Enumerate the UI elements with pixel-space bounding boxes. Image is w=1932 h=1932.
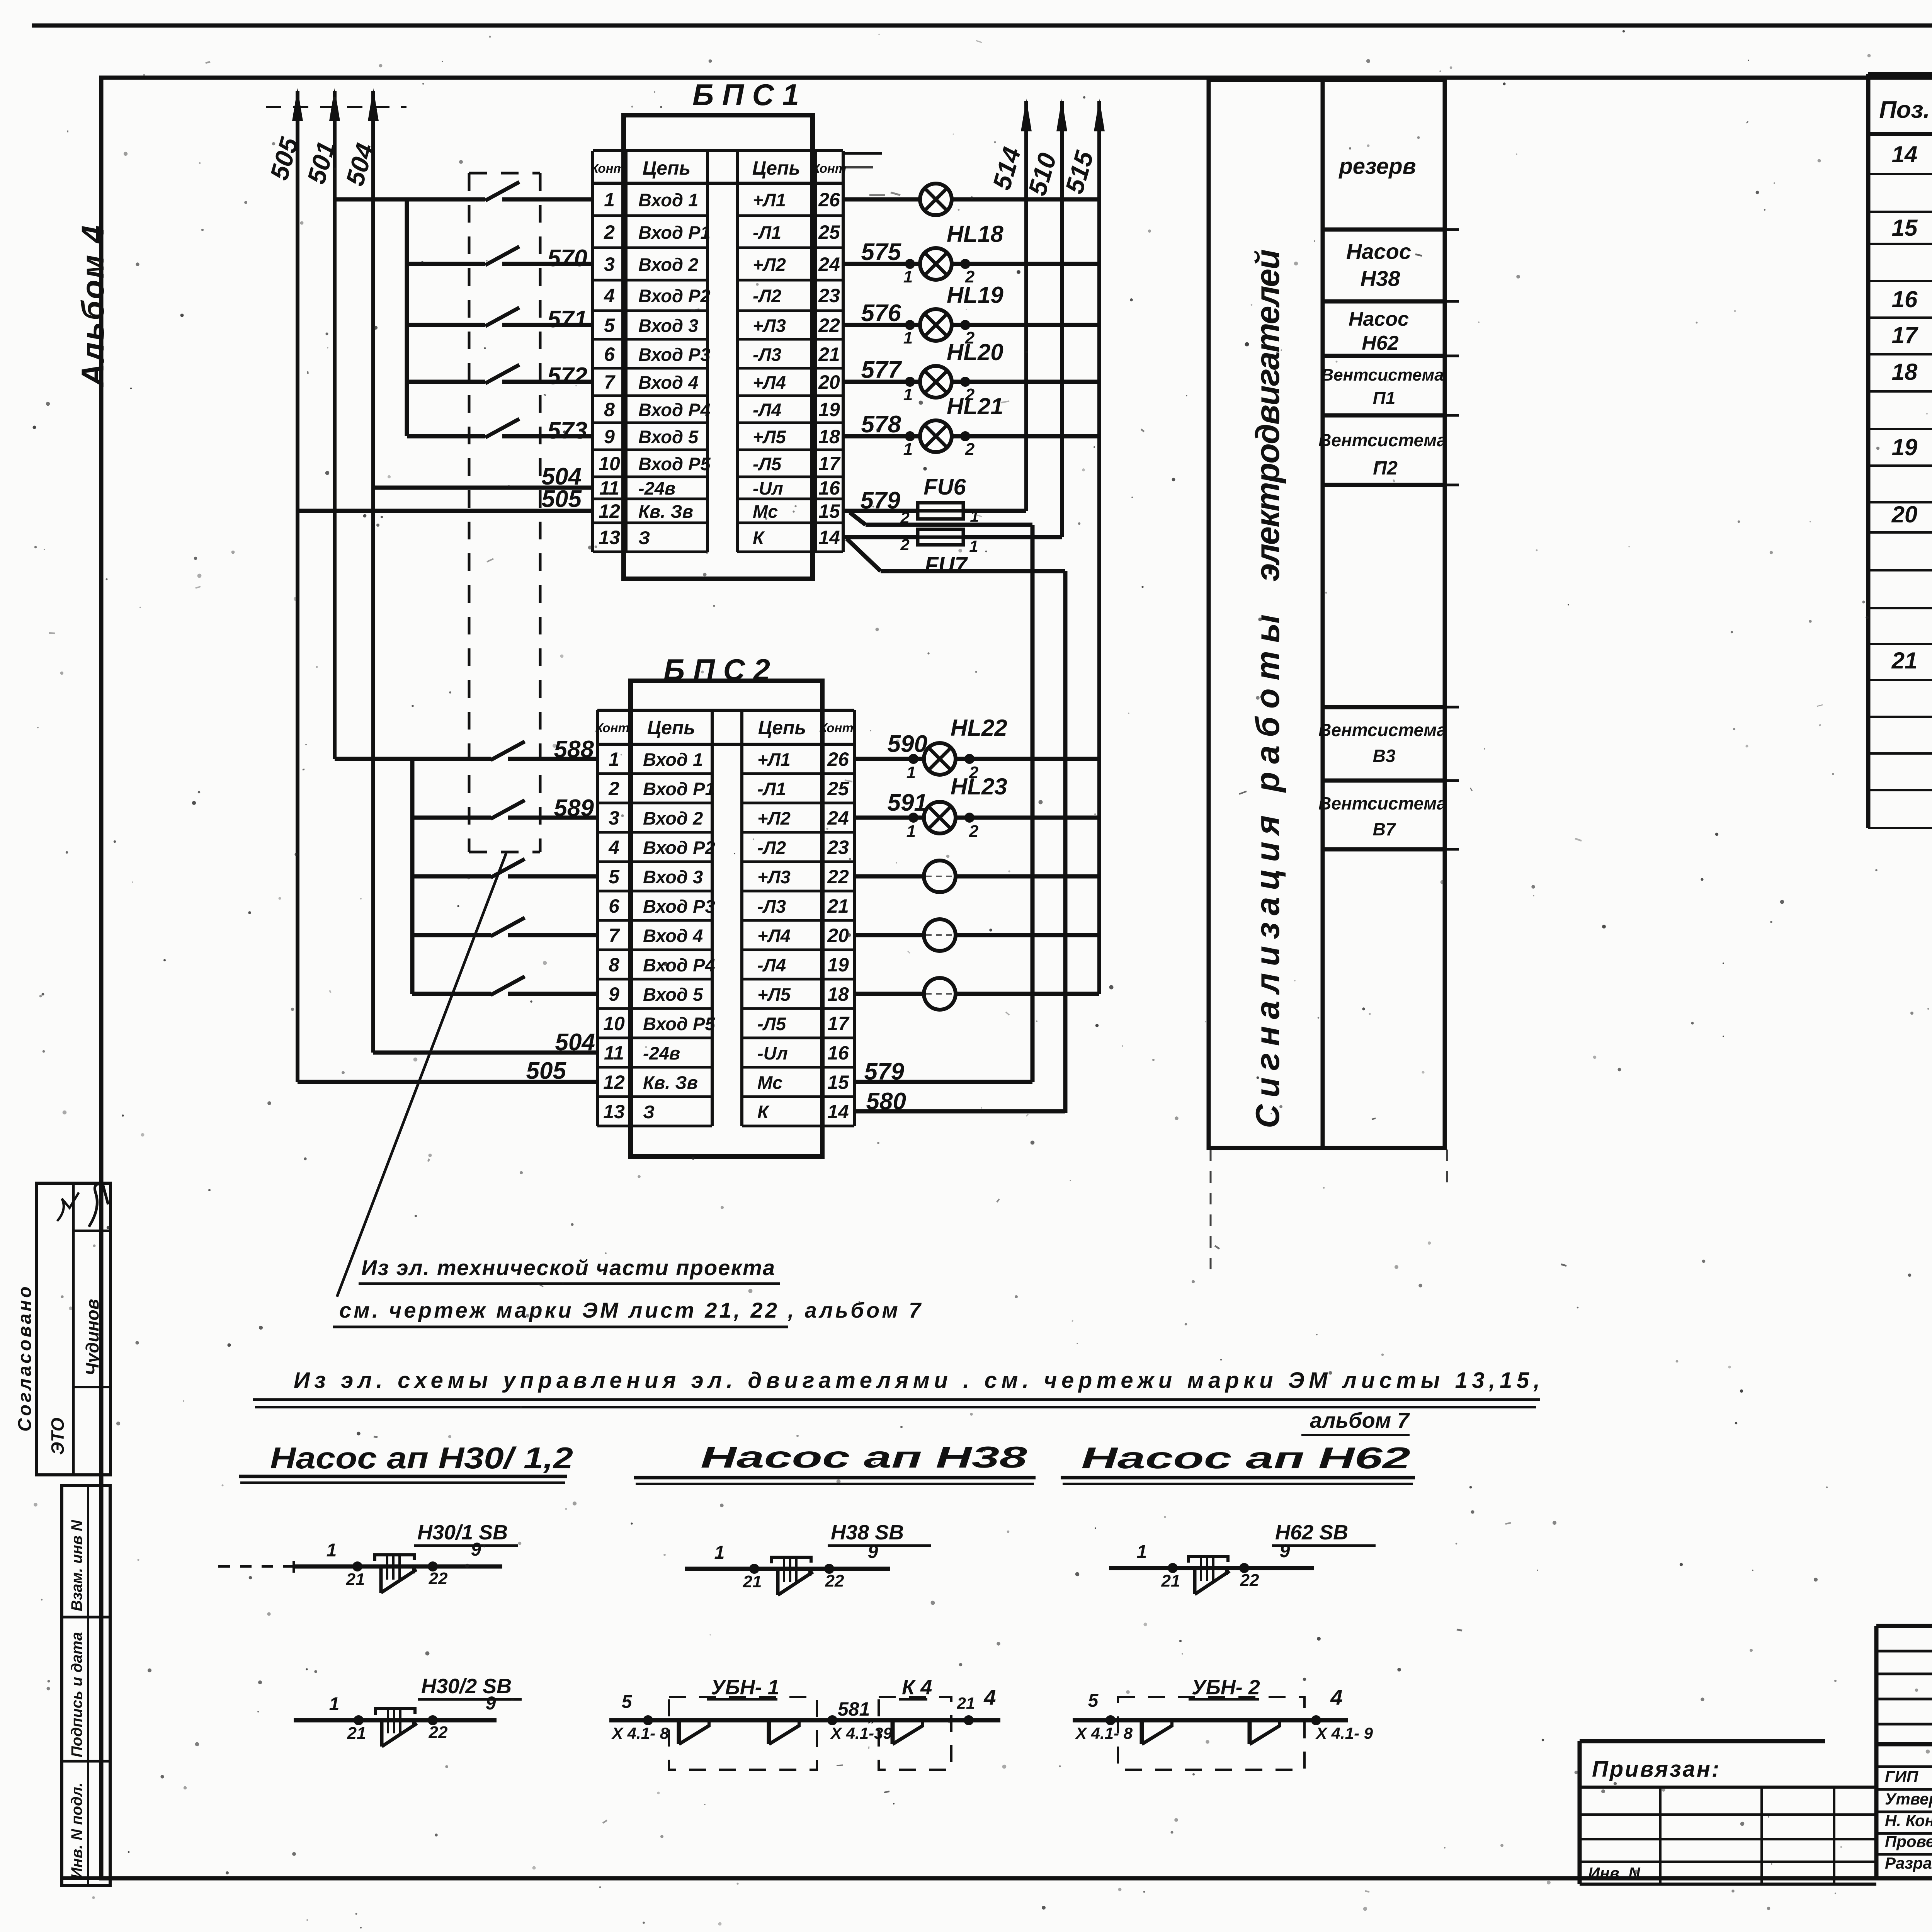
- pin 2 node: [960, 320, 970, 330]
- svg-text:+Л4: +Л4: [757, 925, 791, 946]
- svg-text:16: 16: [1892, 286, 1918, 312]
- svg-text:Н62: Н62: [1362, 332, 1398, 354]
- signal panel cell divider: [1323, 483, 1445, 487]
- wire 570 to BPS1 pin 3: [502, 262, 593, 266]
- svg-text:Вход 2: Вход 2: [638, 254, 698, 275]
- svg-text:12: 12: [603, 1071, 625, 1093]
- node 22: [824, 1564, 834, 1574]
- svg-text:8: 8: [604, 399, 615, 420]
- pushbutton actuator head: [1189, 1556, 1228, 1563]
- wire 579 from BPS2 pin 15: [854, 1080, 1032, 1084]
- svg-text:Разработ.: Разработ.: [1885, 1854, 1932, 1872]
- fuse FU6: [918, 503, 963, 519]
- wire BPS1 pin 24 lamp row: [843, 262, 920, 266]
- svg-text:22: 22: [827, 866, 849, 888]
- svg-text:Цепь: Цепь: [752, 157, 801, 179]
- svg-text:26: 26: [818, 189, 840, 211]
- svg-text:4: 4: [983, 1685, 996, 1709]
- svg-text:24: 24: [827, 807, 849, 829]
- node 21: [1168, 1563, 1178, 1573]
- svg-text:Вход 4: Вход 4: [643, 925, 703, 946]
- wire 505 to BPS2 pin 12: [298, 1080, 597, 1084]
- paper top edge line: [32, 24, 1932, 28]
- wire pump circuit Н38: [685, 1567, 890, 1571]
- dashed enclosure around limit switches: [469, 172, 540, 175]
- wire switch stub BPS2 row 5: [412, 874, 491, 879]
- svg-text:Насос: Насос: [1349, 308, 1409, 330]
- svg-text:Вход 5: Вход 5: [643, 984, 703, 1005]
- svg-text:591: 591: [888, 789, 927, 816]
- switch collector vertical BPS1: [405, 199, 409, 436]
- svg-text:-Л1: -Л1: [753, 222, 781, 243]
- cut marker dashes near bus arrows: [266, 106, 406, 108]
- svg-text:HL22: HL22: [951, 715, 1007, 741]
- bus 501 vertical wire with arrow: [333, 91, 337, 759]
- svg-text:Конт.: Конт.: [595, 721, 633, 735]
- svg-text:15: 15: [827, 1071, 849, 1093]
- svg-text:22: 22: [818, 315, 840, 336]
- wire switch stub row 3: [407, 262, 485, 266]
- wire 505 to BPS1 pin 12: [298, 509, 593, 513]
- wire 580 from BPS2 pin 14: [854, 1109, 1065, 1114]
- svg-text:14: 14: [818, 527, 840, 548]
- svg-text:12: 12: [599, 500, 620, 522]
- svg-text:Н38 SB: Н38 SB: [831, 1521, 904, 1544]
- wire BPS2 pin 18 lamp row: [854, 992, 924, 996]
- wire to BPS2 pin 3: [508, 816, 597, 820]
- svg-text:Вход Р4: Вход Р4: [643, 955, 715, 975]
- svg-text:19: 19: [827, 954, 849, 976]
- svg-text:X 4.1-39: X 4.1-39: [830, 1724, 892, 1742]
- svg-text:-Л5: -Л5: [753, 454, 782, 474]
- svg-text:Кв. Зв: Кв. Зв: [638, 501, 693, 522]
- fuse FU7: [918, 529, 963, 545]
- wire pump circuit Н30/1: [294, 1565, 502, 1569]
- connector BPS1 pin table grid: [591, 151, 594, 552]
- switch contact SB BPS2 row 5: [491, 859, 525, 878]
- svg-text:-Л2: -Л2: [753, 286, 781, 306]
- pin 1 node: [905, 377, 915, 387]
- svg-text:22: 22: [1240, 1571, 1259, 1590]
- signal panel cell divider: [1323, 354, 1445, 358]
- short stub from BPS1 header: [843, 152, 882, 155]
- circuit H30/1 SB: [218, 1565, 294, 1568]
- svg-text:Вход 1: Вход 1: [643, 749, 703, 770]
- svg-text:1: 1: [969, 537, 978, 555]
- svg-text:578: 578: [861, 411, 901, 438]
- wire BPS1 pin 22 lamp row: [843, 323, 920, 327]
- wire switch stub BPS2 row 7: [412, 933, 491, 937]
- svg-text:22: 22: [429, 1723, 448, 1742]
- svg-text:577: 577: [861, 357, 902, 383]
- svg-text:13: 13: [603, 1101, 625, 1122]
- node 581: [827, 1715, 837, 1725]
- wire 504 to BPS1 pin 11: [373, 486, 593, 490]
- svg-text:Н30/1 SB: Н30/1 SB: [417, 1521, 508, 1544]
- svg-text:+Л2: +Л2: [753, 254, 786, 275]
- signal panel cell divider: [1323, 413, 1445, 418]
- svg-text:Цепь: Цепь: [758, 717, 806, 738]
- node 21: [354, 1715, 364, 1725]
- svg-text:19: 19: [1892, 434, 1918, 460]
- svg-text:21: 21: [827, 895, 849, 917]
- svg-text:+Л1: +Л1: [757, 749, 791, 770]
- svg-text:Конт.: Конт.: [819, 721, 857, 735]
- svg-text:альбом 7: альбом 7: [1310, 1408, 1410, 1432]
- wire switch stub row 5: [407, 323, 485, 327]
- svg-text:7: 7: [609, 925, 620, 946]
- svg-text:571: 571: [548, 306, 587, 333]
- svg-text:Вход 3: Вход 3: [643, 867, 703, 887]
- switch contact SB BPS2 row 1: [491, 742, 525, 760]
- svg-text:9: 9: [868, 1542, 878, 1562]
- pin 2 node: [960, 431, 970, 441]
- pushbutton contact blade: [776, 1570, 780, 1595]
- switch contact SB row 9: [485, 419, 519, 437]
- svg-text:588: 588: [554, 736, 594, 763]
- circuit УБН-2 wire: [1073, 1718, 1348, 1723]
- svg-text:Проверил: Проверил: [1885, 1832, 1932, 1850]
- svg-text:З: З: [643, 1102, 655, 1122]
- svg-text:573: 573: [548, 417, 587, 444]
- wire to BPS2 pin 5: [508, 874, 597, 879]
- svg-text:504: 504: [555, 1029, 595, 1056]
- svg-text:К 4: К 4: [902, 1676, 932, 1699]
- svg-text:11: 11: [604, 1042, 624, 1064]
- signal panel cell divider: [1323, 705, 1445, 709]
- svg-text:Из эл. схемы управления: Из эл. схемы управления эл. двигателями …: [294, 1368, 1540, 1393]
- wire switch stub BPS2 row 9: [412, 992, 491, 996]
- wire 580 jog down to riser: [847, 539, 881, 571]
- svg-text:П1: П1: [1373, 388, 1396, 408]
- node X4.1-9: [1311, 1715, 1321, 1725]
- svg-text:ГИП: ГИП: [1885, 1767, 1918, 1786]
- svg-text:572: 572: [548, 363, 587, 389]
- svg-text:FU7: FU7: [925, 553, 968, 578]
- svg-text:23: 23: [827, 837, 849, 858]
- svg-text:X 4.1- 9: X 4.1- 9: [1315, 1724, 1373, 1742]
- svg-text:-Л1: -Л1: [757, 779, 786, 799]
- svg-text:6: 6: [604, 344, 615, 365]
- connector BPS2 pin table grid: [596, 710, 599, 1126]
- svg-text:Вход Р4: Вход Р4: [638, 400, 711, 420]
- svg-text:5: 5: [622, 1692, 633, 1712]
- svg-text:9: 9: [604, 426, 615, 447]
- title block revision grid: [1876, 1650, 1932, 1653]
- svg-text:8: 8: [609, 954, 619, 976]
- wire вход1 to BPS1 pin 1: [502, 197, 593, 202]
- svg-text:Насос ап Н30/ 1,2: Насос ап Н30/ 1,2: [270, 1441, 573, 1475]
- pushbutton contact blade: [1193, 1569, 1197, 1594]
- svg-text:19: 19: [818, 399, 840, 420]
- svg-text:+Л1: +Л1: [753, 190, 786, 210]
- svg-text:HL20: HL20: [947, 339, 1003, 365]
- svg-text:З: З: [638, 527, 650, 548]
- svg-text:FU6: FU6: [923, 474, 966, 500]
- svg-text:7: 7: [604, 371, 616, 393]
- wire 572 to BPS1 pin 7: [502, 380, 593, 384]
- svg-text:26: 26: [827, 748, 849, 770]
- node 22: [428, 1715, 438, 1725]
- svg-text:575: 575: [861, 239, 902, 265]
- svg-text:2: 2: [965, 440, 975, 459]
- svg-text:HL18: HL18: [947, 221, 1003, 247]
- title block outline: [1876, 1624, 1932, 1628]
- svg-text:Вход 4: Вход 4: [638, 372, 698, 393]
- svg-text:16: 16: [818, 477, 840, 499]
- dashed tail below signal box: [1210, 1150, 1212, 1275]
- wire switch stub row 7: [407, 380, 485, 384]
- wire to BPS2 pin 7: [508, 933, 597, 937]
- svg-text:Подпись и дата: Подпись и дата: [68, 1632, 85, 1757]
- svg-text:21: 21: [1891, 648, 1918, 673]
- svg-text:резерв: резерв: [1338, 154, 1416, 179]
- svg-text:3: 3: [604, 253, 615, 275]
- svg-text:-Л3: -Л3: [757, 896, 786, 917]
- reserve lamp circle (empty): [924, 861, 956, 892]
- pushbutton actuator head: [772, 1557, 811, 1563]
- wire FU7 output to bus 510: [963, 535, 1062, 539]
- svg-text:17: 17: [827, 1013, 850, 1034]
- wire to BPS2 pin 1: [508, 757, 597, 761]
- svg-text:576: 576: [861, 300, 901, 327]
- svg-text:-Л2: -Л2: [757, 837, 786, 858]
- svg-text:+Л2: +Л2: [757, 808, 791, 828]
- svg-text:21: 21: [957, 1694, 975, 1712]
- svg-text:УБН- 1: УБН- 1: [711, 1676, 779, 1699]
- svg-text:Вентсистема: Вентсистема: [1318, 720, 1447, 740]
- wire to BPS2 pin 9: [508, 992, 597, 996]
- svg-text:+Л3: +Л3: [757, 867, 791, 887]
- svg-text:4: 4: [604, 285, 615, 306]
- svg-text:Вентсистема: Вентсистема: [1318, 793, 1447, 813]
- lamp HL18: [920, 248, 952, 280]
- svg-text:9: 9: [1280, 1541, 1290, 1561]
- margin stamp Согласовано box: [36, 1183, 111, 1475]
- svg-text:Утвердил: Утвердил: [1885, 1790, 1932, 1808]
- svg-text:Вход 2: Вход 2: [643, 808, 703, 828]
- bus 510 vertical wire with arrow: [1060, 101, 1064, 537]
- svg-text:Н62 SB: Н62 SB: [1275, 1521, 1348, 1544]
- wire row1 feed from bus 501: [335, 197, 485, 202]
- svg-text:1: 1: [327, 1540, 337, 1561]
- svg-text:5: 5: [1088, 1690, 1099, 1711]
- lamp HL (unlabeled): [920, 184, 952, 215]
- svg-text:-Uл: -Uл: [753, 478, 783, 498]
- svg-text:„: „: [867, 1708, 876, 1725]
- svg-text:589: 589: [554, 795, 594, 821]
- signal panel cell divider: [1323, 847, 1445, 852]
- svg-text:Насос ап Н38: Насос ап Н38: [701, 1440, 1027, 1474]
- svg-text:Из эл. технической части пр: Из эл. технической части проекта: [361, 1255, 775, 1280]
- pin 1 node: [905, 259, 915, 269]
- svg-text:Согласовано: Согласовано: [15, 1284, 35, 1432]
- svg-text:Цепь: Цепь: [647, 717, 696, 738]
- signature squiggle: [89, 1184, 108, 1227]
- switch contact SB BPS2 row 7: [491, 918, 525, 936]
- switch collector vertical BPS2: [410, 759, 415, 994]
- svg-text:1: 1: [714, 1543, 725, 1563]
- svg-text:Взам. инв N: Взам. инв N: [68, 1520, 85, 1611]
- svg-text:Чудинов: Чудинов: [82, 1299, 102, 1376]
- node 21: [749, 1564, 759, 1574]
- svg-text:Вход Р2: Вход Р2: [638, 286, 711, 306]
- svg-text:Н38: Н38: [1361, 266, 1401, 291]
- svg-text:HL19: HL19: [947, 282, 1003, 308]
- svg-text:1: 1: [903, 267, 913, 286]
- svg-text:581: 581: [838, 1698, 870, 1720]
- switch contact SB BPS2 row 9: [491, 976, 525, 995]
- pushbutton contact blade: [379, 1567, 383, 1593]
- svg-text:Мс: Мс: [757, 1072, 782, 1093]
- svg-text:505: 505: [542, 486, 582, 512]
- svg-text:1: 1: [906, 763, 916, 782]
- svg-text:18: 18: [827, 983, 849, 1005]
- wire switch stub row 9: [407, 434, 485, 439]
- svg-text:579: 579: [861, 487, 901, 514]
- signal panel box Сигнализация работы электродвигателей: [1209, 80, 1445, 1148]
- svg-text:Вход Р5: Вход Р5: [643, 1014, 715, 1034]
- svg-text:Вход Р1: Вход Р1: [638, 222, 711, 243]
- svg-text:1: 1: [329, 1694, 340, 1714]
- node X4.1-8: [643, 1715, 653, 1725]
- pin 2 node: [960, 377, 970, 387]
- svg-text:Вход Р3: Вход Р3: [643, 896, 715, 917]
- relay contact: [677, 1720, 681, 1744]
- pin 1 node: [905, 320, 915, 330]
- svg-text:HL21: HL21: [947, 393, 1003, 419]
- svg-text:Н. Контр.: Н. Контр.: [1885, 1811, 1932, 1830]
- svg-text:-Л4: -Л4: [753, 400, 781, 420]
- svg-text:2: 2: [900, 536, 909, 554]
- svg-text:+Л5: +Л5: [757, 984, 791, 1005]
- lamp HL21: [920, 420, 952, 452]
- svg-text:4: 4: [608, 837, 619, 858]
- svg-text:Альбом 4: Альбом 4: [75, 224, 111, 387]
- wire 579 from BPS1 pin 15 to FU6: [843, 509, 918, 513]
- svg-text:+Л5: +Л5: [753, 427, 786, 447]
- svg-text:-Л5: -Л5: [757, 1014, 786, 1034]
- svg-text:3: 3: [609, 807, 619, 829]
- svg-text:1: 1: [609, 748, 619, 770]
- svg-text:22: 22: [825, 1571, 844, 1590]
- svg-text:13: 13: [599, 527, 620, 548]
- svg-text:1: 1: [604, 189, 615, 211]
- svg-text:Вентсистема: Вентсистема: [1321, 366, 1444, 384]
- svg-text:+Л3: +Л3: [753, 315, 786, 336]
- svg-text:Вход Р5: Вход Р5: [638, 454, 711, 474]
- switch contact SB row 1: [485, 182, 519, 201]
- svg-text:9: 9: [471, 1539, 481, 1560]
- wire 573 to BPS1 pin 9: [502, 434, 593, 439]
- svg-text:21: 21: [743, 1572, 762, 1591]
- svg-text:электродвигателей: электродвигателей: [1249, 249, 1286, 582]
- svg-text:К: К: [757, 1102, 770, 1122]
- pushbutton actuator head: [375, 1555, 414, 1561]
- signal panel cell divider: [1323, 779, 1445, 783]
- svg-text:18: 18: [818, 426, 840, 447]
- wire BPS2 pin 20 lamp row: [854, 933, 924, 937]
- stamp grid under Привязан: [1580, 1813, 1876, 1816]
- svg-text:Б П С 1: Б П С 1: [692, 78, 799, 112]
- svg-text:18: 18: [1892, 359, 1918, 385]
- riser 580 down to BPS2 pin 14: [1063, 571, 1068, 1113]
- reserve lamp circle (empty): [924, 978, 956, 1010]
- pushbutton actuator head: [376, 1709, 415, 1715]
- svg-text:20: 20: [818, 371, 840, 393]
- dashed box УБН-1: [669, 1697, 817, 1770]
- relay contact: [767, 1720, 771, 1744]
- lamp HL20: [920, 366, 952, 398]
- svg-text:25: 25: [818, 221, 840, 243]
- wire FU6 output to bus 514: [963, 509, 1026, 513]
- svg-text:1: 1: [906, 822, 916, 841]
- svg-text:17: 17: [818, 453, 841, 474]
- wire pump circuit Н62: [1109, 1566, 1314, 1570]
- svg-text:4: 4: [1330, 1685, 1342, 1709]
- svg-text:Вход Р1: Вход Р1: [643, 779, 715, 799]
- wire BPS2 pin 26 lamp row: [854, 757, 924, 761]
- svg-text:1: 1: [1137, 1542, 1147, 1562]
- margin stamp columns Взам/Подпись/Инв box: [62, 1486, 110, 1886]
- svg-text:580: 580: [866, 1088, 906, 1115]
- svg-text:Инв. N: Инв. N: [1588, 1864, 1641, 1882]
- pin 1 node: [905, 431, 915, 441]
- bus 504 vertical wire with arrow: [371, 91, 375, 1053]
- svg-text:Цепь: Цепь: [643, 157, 691, 179]
- svg-text:10: 10: [603, 1013, 625, 1034]
- svg-text:Вход Р3: Вход Р3: [638, 344, 711, 365]
- svg-text:15: 15: [1892, 215, 1918, 241]
- svg-text:5: 5: [609, 866, 620, 888]
- svg-text:Насос: Насос: [1346, 239, 1411, 264]
- lamp HL23: [924, 802, 956, 833]
- svg-text:Н30/2 SB: Н30/2 SB: [421, 1675, 512, 1698]
- svg-text:Конт.: Конт.: [590, 161, 628, 175]
- wire BPS2 pin 22 lamp row: [854, 874, 924, 879]
- node 22: [428, 1561, 438, 1571]
- svg-text:П2: П2: [1373, 457, 1398, 479]
- svg-text:+Л4: +Л4: [753, 372, 786, 393]
- svg-text:9: 9: [609, 983, 619, 1005]
- bus 505 vertical wire with arrow: [296, 91, 299, 1082]
- dashed box К4: [879, 1697, 951, 1770]
- wire 580 from BPS1 pin 14 to FU7: [843, 535, 918, 539]
- svg-text:ЭТО: ЭТО: [48, 1417, 68, 1455]
- svg-text:5: 5: [604, 315, 615, 336]
- svg-text:570: 570: [548, 245, 587, 272]
- wire BPS1 pin 18 lamp row: [843, 434, 920, 439]
- node 21: [352, 1561, 362, 1571]
- switch contact SB BPS2 row 3: [491, 800, 525, 819]
- riser 579 down to BPS2 pin 15: [1031, 525, 1035, 1082]
- svg-text:X 4.1- 8: X 4.1- 8: [1075, 1724, 1133, 1742]
- wire BPS2 pin 24 lamp row: [854, 816, 924, 820]
- reserve lamp circle (empty): [924, 919, 956, 951]
- svg-text:24: 24: [818, 253, 840, 275]
- svg-text:14: 14: [827, 1101, 849, 1122]
- svg-text:Вентсистема: Вентсистема: [1318, 430, 1447, 450]
- svg-text:-Л3: -Л3: [753, 344, 781, 365]
- svg-text:1: 1: [903, 440, 913, 459]
- erased marks near top lamp wire: [869, 194, 885, 196]
- connector BPS1 body: [624, 115, 813, 579]
- svg-text:11: 11: [599, 477, 619, 499]
- relay contact: [1248, 1720, 1252, 1744]
- connector BPS2 body: [631, 681, 822, 1156]
- lamp HL19: [920, 309, 952, 341]
- svg-text:Вход Р2: Вход Р2: [643, 837, 715, 858]
